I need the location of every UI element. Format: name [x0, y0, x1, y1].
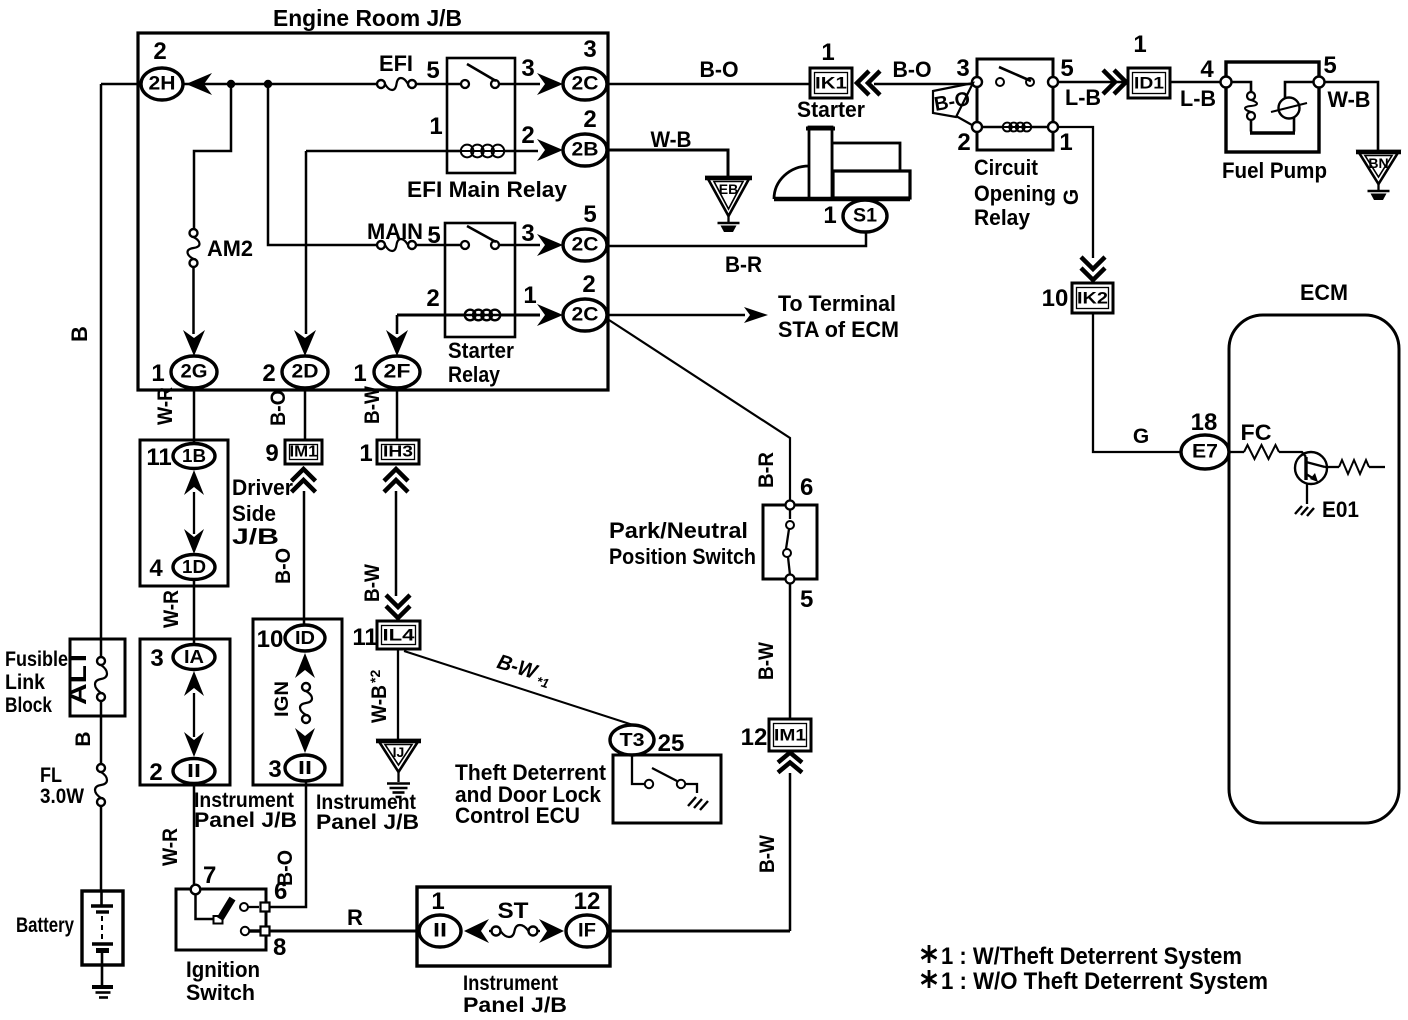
- ECM: [1229, 280, 1399, 823]
- junction block Driver Side J/B: [140, 440, 293, 586]
- junction dot B: [264, 80, 272, 88]
- starter motor S1: [774, 127, 910, 232]
- svg-text:BN: BN: [1368, 155, 1388, 171]
- svg-text:J/B: J/B: [232, 524, 279, 549]
- wire B-O 2C to IK1: [607, 57, 810, 84]
- connector T3 pin 25: [610, 725, 684, 757]
- svg-text:Relay: Relay: [448, 362, 501, 387]
- svg-text:Battery: Battery: [16, 914, 74, 937]
- svg-text:2: 2: [582, 271, 595, 298]
- svg-text:5: 5: [800, 586, 813, 613]
- svg-text:2G: 2G: [181, 362, 208, 383]
- connector IK2 pin 10: [1042, 257, 1113, 313]
- connector 2C pin 3: [563, 36, 607, 100]
- svg-text:T3: T3: [620, 730, 645, 750]
- svg-text:1: 1: [431, 888, 444, 915]
- fuse AM2: [188, 84, 254, 334]
- svg-text:5: 5: [583, 201, 596, 228]
- wire W-R 1D to IA: [160, 580, 194, 644]
- wire B-R 2C to S1: [607, 232, 866, 277]
- svg-text:5: 5: [1323, 52, 1336, 79]
- wire MAIN branch: [268, 84, 377, 245]
- svg-text:II: II: [433, 921, 447, 942]
- svg-text:ST: ST: [498, 898, 530, 923]
- svg-text:To Terminal: To Terminal: [778, 291, 896, 316]
- svg-text:1: 1: [523, 282, 536, 309]
- svg-text:IA: IA: [184, 647, 204, 667]
- svg-text:2H: 2H: [149, 74, 176, 95]
- svg-text:Starter: Starter: [797, 97, 865, 122]
- svg-text:B-W: B-W: [755, 642, 778, 680]
- junction block Instrument Panel J/B (IGN): [253, 619, 419, 834]
- wire to 2B: [537, 139, 563, 161]
- svg-text:Control ECU: Control ECU: [455, 803, 580, 828]
- svg-text:ECM: ECM: [1300, 280, 1348, 305]
- wire B-W*1 diagonal IL4 to T3: [404, 650, 633, 725]
- svg-text:Switch: Switch: [186, 980, 255, 1005]
- connector IH3 pin 1: [359, 440, 419, 492]
- wire to 2C pin 5: [499, 234, 563, 256]
- svg-text:Block: Block: [5, 694, 52, 717]
- svg-text:Opening: Opening: [974, 181, 1056, 206]
- svg-text:W-R: W-R: [154, 387, 177, 425]
- svg-text:L-B: L-B: [1065, 85, 1101, 110]
- svg-text:1: 1: [429, 113, 442, 140]
- svg-text:4: 4: [1200, 56, 1214, 83]
- junction block Engine Room J/B: [138, 5, 608, 390]
- svg-text:1: 1: [353, 360, 366, 387]
- svg-text:11: 11: [352, 624, 377, 651]
- svg-text:B-R: B-R: [755, 452, 778, 488]
- svg-text:Instrument: Instrument: [463, 972, 558, 995]
- relay Starter Relay: [397, 220, 540, 387]
- svg-text:Relay: Relay: [974, 205, 1031, 230]
- connector II pin 1: [419, 888, 461, 947]
- svg-text:W-B: W-B: [1328, 87, 1371, 112]
- wire B-O II to ignition switch: [270, 781, 306, 907]
- svg-text:6: 6: [800, 474, 813, 501]
- svg-text:1 : W/O Theft Deterrent System: 1 : W/O Theft Deterrent System: [941, 968, 1268, 995]
- internal fuse ST: [464, 898, 564, 943]
- svg-text:W-B: W-B: [651, 127, 692, 152]
- svg-text:ID1: ID1: [1134, 74, 1164, 93]
- junction dot A: [227, 80, 235, 88]
- svg-text:2B: 2B: [572, 140, 599, 161]
- svg-text:B-O: B-O: [272, 548, 295, 584]
- switch Park/Neutral Position Switch: [609, 474, 817, 613]
- connector 2B pin 2: [563, 106, 607, 166]
- connector 2F: [353, 330, 420, 388]
- svg-text:12: 12: [741, 724, 768, 751]
- connector ID1 pin 1: [1128, 31, 1170, 98]
- svg-text:IF: IF: [578, 921, 596, 942]
- connector 1B: [146, 444, 215, 472]
- svg-text:Driver: Driver: [232, 475, 293, 500]
- internal link IA-II: [184, 671, 204, 757]
- connector IF pin 12: [566, 888, 608, 947]
- svg-text:E01: E01: [1322, 497, 1359, 522]
- svg-text:S1: S1: [853, 206, 877, 227]
- ground IJ: [376, 740, 421, 797]
- wire B-W 2F to IH3: [361, 386, 397, 440]
- svg-text:6: 6: [274, 878, 287, 905]
- svg-text:25: 25: [658, 730, 685, 757]
- wire colour flag B-O: [933, 83, 973, 125]
- svg-text:2C: 2C: [572, 74, 599, 95]
- svg-text:IK1: IK1: [815, 74, 847, 93]
- svg-text:3: 3: [521, 55, 534, 82]
- svg-text:W-R: W-R: [159, 828, 182, 866]
- svg-text:3: 3: [150, 645, 163, 672]
- fuse MAIN: [367, 219, 461, 251]
- svg-text:B: B: [67, 326, 92, 342]
- svg-text:STA of ECM: STA of ECM: [778, 317, 899, 342]
- wire L-B ID1 to fuel pump: [1170, 82, 1221, 111]
- transistor Q1: [1295, 452, 1327, 484]
- svg-text:FL: FL: [40, 764, 62, 787]
- wire IF to IM1 riser: [608, 930, 790, 933]
- ECU Theft Deterrent and Door Lock Control ECU: [455, 755, 721, 828]
- wire W-B to ground EB: [607, 127, 728, 176]
- svg-text:2: 2: [153, 38, 166, 65]
- svg-text:3: 3: [268, 756, 281, 783]
- svg-text:12: 12: [574, 888, 601, 915]
- svg-text:IM1: IM1: [290, 444, 318, 461]
- svg-text:B: B: [72, 731, 95, 746]
- relay EFI Main Relay: [407, 55, 568, 202]
- svg-text:1D: 1D: [182, 557, 206, 577]
- svg-text:3: 3: [583, 36, 596, 63]
- svg-text:5: 5: [1060, 55, 1073, 82]
- svg-text:8: 8: [273, 934, 286, 961]
- svg-text:7: 7: [203, 862, 216, 889]
- svg-text:1: 1: [1133, 31, 1146, 58]
- svg-text:2C: 2C: [572, 305, 599, 326]
- connector 2H: [141, 38, 212, 100]
- svg-text:ALT: ALT: [64, 649, 92, 705]
- resistor R2: [1325, 460, 1385, 474]
- svg-text:IK2: IK2: [1077, 289, 1108, 308]
- wire B-W IM1 to IF: [756, 773, 790, 931]
- svg-text:Starter: Starter: [448, 338, 514, 363]
- wire G relay to IK2: [1058, 127, 1093, 258]
- svg-text:5: 5: [426, 57, 439, 84]
- wire L-B to ID1: [1058, 70, 1128, 110]
- svg-text:IM1: IM1: [774, 726, 806, 745]
- svg-text:1: 1: [1059, 129, 1072, 156]
- connector IA: [150, 645, 215, 673]
- svg-text:IL4: IL4: [383, 626, 416, 645]
- wire B-R diagonal 2C to park/neutral switch: [609, 320, 790, 500]
- resistor FC: [1229, 420, 1306, 459]
- connector E7 pin 18: [1181, 409, 1229, 469]
- svg-text:1: 1: [151, 360, 164, 387]
- connector IM1 pin 9: [265, 440, 322, 492]
- svg-text:B-W: B-W: [361, 564, 384, 602]
- wire B label: [72, 701, 101, 764]
- svg-text:Engine Room J/B: Engine Room J/B: [273, 5, 462, 31]
- svg-text:2C: 2C: [572, 235, 599, 256]
- switch Ignition Switch: [176, 862, 287, 1005]
- svg-text:G: G: [1060, 189, 1083, 205]
- svg-text:IH3: IH3: [383, 444, 413, 461]
- svg-text:Ignition: Ignition: [186, 957, 260, 982]
- svg-text:4: 4: [149, 555, 163, 582]
- connector IM1 pin 12: [741, 719, 811, 773]
- svg-text:L-B: L-B: [1180, 86, 1216, 111]
- svg-text:B-O: B-O: [893, 57, 932, 82]
- svg-text:B-W: B-W: [756, 835, 779, 873]
- connector 2D: [262, 151, 447, 388]
- svg-text:Position Switch: Position Switch: [609, 544, 756, 569]
- fuse IGN: [272, 653, 315, 753]
- svg-text:B-O: B-O: [700, 57, 739, 82]
- svg-text:10: 10: [1042, 285, 1069, 312]
- svg-text:11: 11: [146, 444, 171, 471]
- svg-text:1B: 1B: [182, 446, 206, 466]
- svg-text:R: R: [347, 905, 363, 930]
- svg-text:3.0W: 3.0W: [40, 785, 84, 808]
- connector II pin 3: [268, 755, 325, 783]
- wire riser to 2F: [396, 315, 399, 334]
- connector 1D: [149, 555, 215, 583]
- wire W-B*2 IL4 to ground IJ: [367, 649, 398, 740]
- svg-text:*2: *2: [367, 670, 383, 683]
- junction block Instrument Panel J/B (bottom): [417, 887, 610, 1017]
- svg-text:9: 9: [265, 440, 278, 467]
- svg-text:IGN: IGN: [272, 681, 293, 717]
- svg-text:W-B: W-B: [368, 685, 391, 723]
- svg-text:2: 2: [149, 759, 162, 786]
- svg-text:Panel J/B: Panel J/B: [316, 811, 419, 834]
- svg-text:18: 18: [1191, 409, 1218, 436]
- fuel pump: [1200, 52, 1336, 183]
- connector 2C pin 5: [563, 201, 607, 261]
- svg-text:ID: ID: [295, 628, 315, 648]
- svg-text:2: 2: [583, 106, 596, 133]
- svg-text:Link: Link: [5, 671, 45, 694]
- wire B main feed from 2H: [67, 84, 141, 657]
- ground EB: [705, 177, 752, 232]
- svg-text:IJ: IJ: [393, 744, 405, 760]
- fuse ALT: [95, 657, 107, 701]
- connector ID: [257, 625, 325, 653]
- ground below battery: [92, 965, 113, 998]
- svg-text:FC: FC: [1241, 420, 1272, 445]
- svg-text:MAIN: MAIN: [367, 219, 423, 244]
- svg-text:Fusible: Fusible: [5, 648, 68, 671]
- svg-text:W-R: W-R: [160, 590, 183, 628]
- fuse EFI: [377, 51, 461, 90]
- svg-text:Side: Side: [232, 501, 276, 526]
- svg-text:Panel J/B: Panel J/B: [194, 809, 297, 832]
- svg-text:EB: EB: [719, 181, 738, 197]
- svg-text:3: 3: [956, 55, 969, 82]
- wire B-O IM1 to ID: [272, 491, 304, 625]
- wire R ignition to II: [269, 905, 419, 931]
- svg-text:1: 1: [821, 39, 834, 66]
- wire to 2C pin 2: [537, 304, 563, 326]
- svg-text:AM2: AM2: [207, 236, 253, 261]
- svg-text:Panel J/B: Panel J/B: [463, 994, 567, 1017]
- battery: [16, 891, 123, 965]
- connector 2G: [151, 330, 217, 388]
- junction block Instrument Panel J/B (IA/II): [140, 639, 297, 832]
- ground BN: [1356, 151, 1401, 200]
- svg-text:2D: 2D: [292, 362, 319, 383]
- svg-text:II: II: [298, 758, 312, 778]
- svg-text:B-R: B-R: [725, 252, 762, 277]
- note W/O theft deterrent: [922, 968, 1269, 995]
- svg-text:EFI: EFI: [379, 51, 413, 76]
- wire to 2C: [499, 73, 563, 95]
- svg-text:B-O: B-O: [267, 390, 290, 426]
- svg-text:2: 2: [957, 129, 970, 156]
- svg-text:Park/Neutral: Park/Neutral: [609, 518, 748, 543]
- svg-text:3: 3: [521, 220, 534, 247]
- svg-text:G: G: [1133, 425, 1149, 448]
- note W/ theft deterrent: [922, 943, 1243, 970]
- connector II pin 2: [149, 759, 215, 787]
- connector IL4 pin 11: [352, 595, 420, 651]
- svg-text:1: 1: [823, 202, 836, 229]
- fusible link block: [5, 639, 125, 717]
- svg-text:II: II: [187, 761, 201, 781]
- connector IK1 pin 1 Starter: [797, 39, 880, 122]
- svg-text:EFI Main Relay: EFI Main Relay: [407, 177, 568, 202]
- wire B-O IK1 to circuit opening relay: [874, 57, 972, 84]
- svg-text:B-W: B-W: [361, 386, 384, 424]
- fuse FL 3.0W: [40, 764, 107, 891]
- relay Circuit Opening Relay: [956, 55, 1073, 230]
- svg-text:2: 2: [426, 285, 439, 312]
- svg-text:2: 2: [521, 122, 534, 149]
- svg-text:Fuel Pump: Fuel Pump: [1222, 158, 1327, 183]
- connector 2C pin 2: [563, 271, 607, 331]
- svg-text:10: 10: [257, 626, 284, 653]
- wire W-R II to ignition switch: [159, 784, 194, 885]
- svg-text:E7: E7: [1192, 442, 1218, 463]
- svg-text:2: 2: [262, 360, 275, 387]
- wire W-R 2G to 1B: [154, 387, 194, 444]
- internal link 1B-1D: [184, 470, 204, 554]
- wire W-B fuel pump to ground BN: [1324, 82, 1378, 150]
- ground E01: [1295, 483, 1359, 522]
- wire B-W switch to IM1: [755, 583, 790, 719]
- wire B-W IH3 to IL4: [361, 491, 396, 602]
- svg-text:Circuit: Circuit: [974, 155, 1039, 180]
- svg-text:1 : W/Theft Deterrent System: 1 : W/Theft Deterrent System: [941, 943, 1242, 970]
- wire To Terminal STA of ECM: [607, 291, 899, 342]
- svg-text:1: 1: [359, 440, 372, 467]
- wire B-O 2D to IM1: [267, 388, 305, 440]
- wire G IK2 to E7: [1093, 313, 1181, 452]
- wire to EFI fuse: [183, 83, 378, 86]
- svg-text:2F: 2F: [384, 362, 411, 383]
